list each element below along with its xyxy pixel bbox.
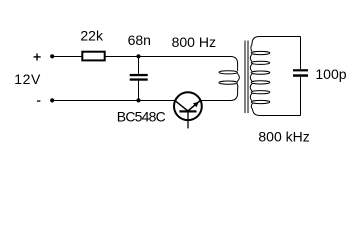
- svg-text:BC548C: BC548C: [117, 109, 166, 125]
- svg-text:800 Hz: 800 Hz: [172, 34, 216, 50]
- svg-text:68n: 68n: [128, 32, 151, 48]
- svg-text:22k: 22k: [80, 28, 104, 44]
- svg-text:12V: 12V: [14, 71, 41, 87]
- svg-text:800 kHz: 800 kHz: [258, 128, 309, 144]
- svg-text:100p: 100p: [315, 66, 346, 82]
